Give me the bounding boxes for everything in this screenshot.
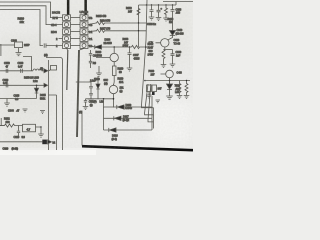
node rail dots [146, 4, 147, 5]
grounds right cluster [156, 100, 161, 103]
ground R344 [184, 96, 190, 99]
wire link row1 [71, 17, 81, 19]
box corner bottom big [81, 111, 83, 146]
connector JL pin2 [63, 22, 71, 28]
node blob [152, 92, 155, 95]
wire diode branch mid [104, 107, 153, 130]
coil L310 [33, 69, 44, 71]
transistor Q302 [161, 39, 169, 47]
capacitor C310 [6, 69, 8, 73]
capacitor C611 stack [76, 82, 93, 99]
small box mid [51, 66, 57, 71]
wire right stubs [88, 18, 91, 46]
arrow right y85 [44, 83, 48, 87]
connector JR pin4 [80, 36, 88, 42]
wire nested L2 [145, 84, 154, 115]
wire link row3 [71, 31, 81, 33]
wire R313 out [0, 126, 41, 135]
transistor Q304 [110, 53, 118, 61]
wire top feed row3 to row5 [0, 10, 43, 46]
connector JL pin5 [63, 43, 71, 49]
wire loop right vertical [151, 107, 153, 118]
wire left edge stub [0, 118, 2, 126]
capacitor C315 series [44, 43, 62, 47]
capacitor C318c [84, 99, 87, 107]
ground C336 [156, 18, 162, 21]
wire left edge v [0, 44, 2, 56]
wire vertical B [142, 0, 154, 108]
wire top feed row1 [0, 2, 63, 18]
ground R616 [163, 18, 169, 21]
ground G1 [16, 53, 22, 56]
resistor R344 [185, 81, 188, 96]
diode D310 [34, 88, 38, 93]
ground D311 [166, 96, 173, 99]
resistor R345 [178, 81, 181, 96]
transistor Q303 [166, 70, 174, 78]
ground stub left [96, 66, 102, 76]
node pin stubs bottom [67, 48, 85, 50]
diode D317 [114, 116, 121, 120]
ground mid1 [23, 109, 28, 112]
capacitor C339 [171, 50, 175, 65]
diode D309 [117, 105, 124, 109]
arrow to box [44, 69, 48, 73]
capacitor C338 [171, 5, 175, 31]
wire top-right rail [139, 4, 177, 6]
resistor R343 boxes [147, 85, 152, 92]
diode D316 [109, 128, 116, 132]
resistor R342 [162, 50, 165, 65]
capacitor C337 [128, 47, 132, 68]
resistor R616 [165, 5, 168, 18]
wire nested L3 [148, 84, 154, 122]
node J2 [129, 46, 131, 48]
ground C334 [149, 17, 155, 20]
capacitor C334 [150, 5, 154, 17]
wire link row4 [71, 38, 81, 40]
bus line lower left [67, 50, 68, 90]
wire corner left [23, 57, 32, 71]
capacitor C309 [6, 83, 8, 87]
ground C339 [170, 64, 176, 67]
connector JR pin2 [80, 22, 88, 28]
resistor R310b box [113, 66, 117, 76]
bus bar upper left [67, 0, 70, 15]
ground C337 [127, 68, 133, 71]
wire diode branch bottom [104, 118, 153, 130]
wire bottom long [0, 141, 42, 143]
transistor Q305 [109, 85, 117, 93]
component C344 box [15, 42, 23, 48]
bus line lower right [77, 50, 79, 137]
wire Q304 collector rail [89, 45, 132, 49]
ground R345 [177, 96, 183, 99]
capacitor C336 [157, 5, 161, 18]
wire row4 stub left [59, 38, 63, 40]
node B wire dot [145, 46, 147, 48]
wire left rail y70 [0, 70, 33, 72]
wire link row2 [71, 24, 81, 26]
wire link row5 [71, 45, 81, 47]
wire left rail y98 [0, 98, 37, 100]
wire right mid rail [164, 49, 173, 51]
node C344 lead [0, 45, 19, 53]
box shield outer [46, 58, 63, 151]
wire bus stub [153, 108, 155, 129]
arrow terminal [48, 140, 52, 144]
node Q303 junction [169, 80, 171, 82]
wire top edge right [163, 2, 193, 6]
wire left rail y85 [0, 84, 44, 86]
node rail dot [186, 80, 187, 81]
capacitor C319 [17, 126, 20, 137]
wire row2 to R614 [88, 21, 146, 24]
ground R342 [161, 65, 167, 68]
resistor R313 box 4.7 [23, 124, 36, 132]
wire row3 to R617 [88, 29, 146, 32]
connector JR pin5 [80, 43, 88, 49]
terminal square [42, 140, 47, 145]
node J1 [113, 46, 115, 48]
diode D308 [96, 84, 100, 89]
ground left [4, 99, 10, 107]
node B rail dot [144, 80, 146, 82]
node J3 [113, 98, 115, 100]
resistor R338 [132, 45, 147, 48]
wire diode branch top [104, 96, 153, 107]
wire Q305 base [86, 98, 114, 100]
wire R312 rail [0, 124, 23, 127]
capacitor C330 [21, 69, 23, 73]
wire vertical A [138, 5, 140, 47]
connector JL pin4 [63, 36, 71, 42]
ground C611 [88, 99, 94, 102]
connector JL left column pin1 [63, 15, 71, 21]
resistor R612 [137, 9, 140, 15]
bottom bus thick [82, 146, 193, 150]
connector JL pin3 [63, 29, 71, 35]
diode D306 [170, 31, 176, 36]
connector JR pin3 [80, 29, 88, 35]
column caps x90 [89, 50, 92, 68]
ground mid2 [40, 111, 45, 114]
node J4 [36, 85, 38, 87]
node dots vertical A [138, 22, 139, 23]
bus bar upper right [84, 0, 87, 15]
box shield divider [49, 95, 57, 150]
ground R343 [146, 95, 152, 98]
ground C318c [83, 107, 89, 110]
connector JR right column pin1 [80, 15, 88, 21]
wire top feed row2 [0, 6, 63, 25]
ground R313 [38, 134, 44, 137]
wire right low rail [146, 80, 190, 82]
diode D311 [167, 84, 173, 90]
